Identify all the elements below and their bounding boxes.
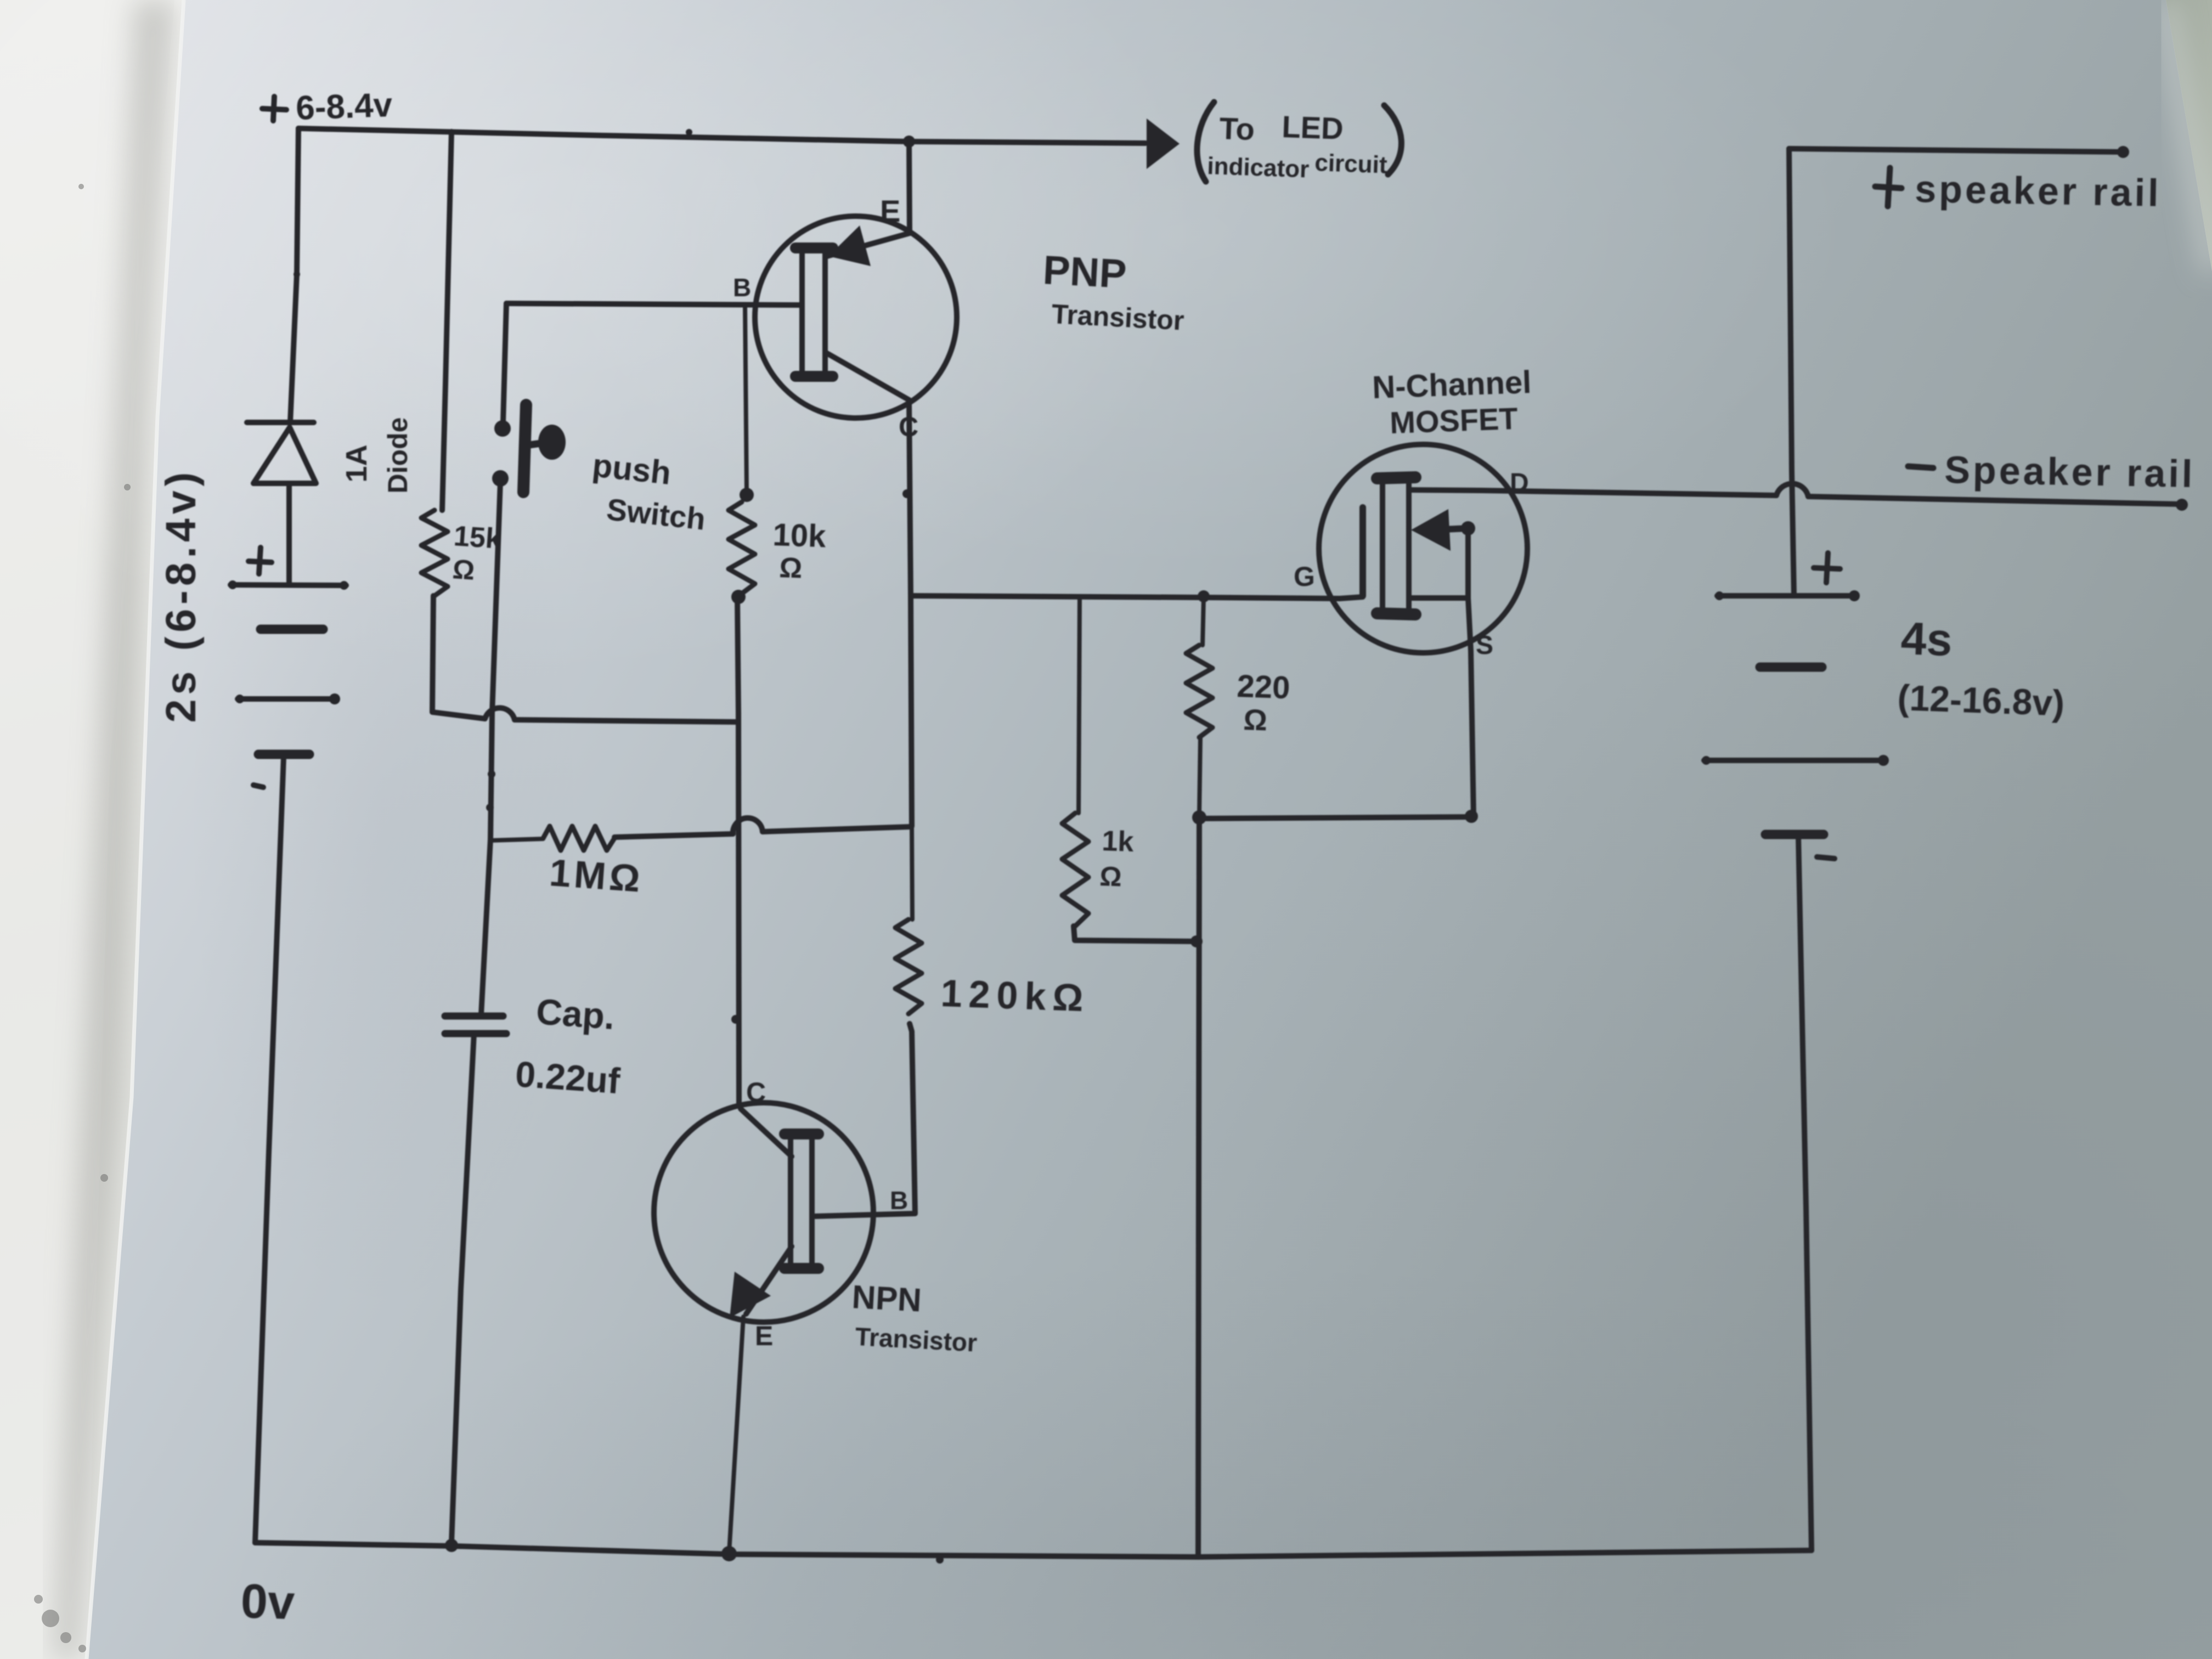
wire NPN emitter to rail [729, 1317, 743, 1553]
svg-text:speaker rail: speaker rail [1915, 167, 2162, 215]
wire emitter to rail [909, 142, 910, 233]
wire 120k to NPN base [815, 1024, 915, 1216]
wire gate lead [1340, 597, 1363, 599]
label +6-8.4v supply [273, 97, 274, 121]
wire 15k to corner [432, 596, 485, 719]
svg-text:1k: 1k [1102, 825, 1135, 858]
resistor R4 1k [1062, 813, 1088, 926]
svg-text:Ω: Ω [1099, 861, 1122, 892]
ink dot on collector wire 2 [731, 1015, 740, 1024]
wire MOSFET source to 220 node [1199, 817, 1474, 819]
wire plus rail vertical to battery [1789, 149, 1794, 595]
ink dots on switch wire [488, 770, 495, 778]
wire switch down to 1M/cap node [481, 482, 500, 1015]
transistor Q1 emitter arrow (PNP) [828, 225, 871, 266]
wire hop over collector line [733, 818, 763, 834]
wire drain to hop [1481, 490, 1776, 495]
svg-text:10k: 10k [772, 517, 827, 554]
wire B-net to 10k [745, 305, 747, 492]
wire top positive rail [298, 128, 1145, 143]
junction dot cap/rail [445, 1539, 458, 1552]
wire 220 to source node [1199, 737, 1200, 815]
svg-text:Ω: Ω [779, 552, 803, 584]
MOSFET Q3 source inner wire [1409, 595, 1468, 601]
wire plus speaker rail [1789, 149, 2122, 152]
wire 1k to mid node [1074, 926, 1196, 941]
label To LED indicator circuit [1197, 102, 1214, 182]
junction dot 1k/mid [1190, 935, 1203, 947]
battery BT1 short plate 1 [261, 625, 323, 634]
transistor Q2 NPN circle [654, 1103, 873, 1322]
MOSFET Q3 gate bar [1359, 507, 1366, 596]
junction dot emitter/rail [721, 1546, 737, 1561]
resistor R2 1M lead [490, 839, 543, 840]
svg-text:PNP: PNP [1042, 247, 1127, 297]
svg-text:Ω: Ω [452, 554, 476, 586]
label plus speaker rail [1888, 168, 1890, 206]
svg-text:15k: 15k [453, 520, 503, 555]
svg-text:4s: 4s [1900, 612, 1953, 665]
wire mid node to bottom rail [1198, 819, 1199, 1556]
push switch SW1 actuator [523, 405, 526, 492]
svg-text:To: To [1219, 111, 1255, 146]
push switch SW1 bottom contact [492, 470, 509, 487]
svg-text:0v: 0v [240, 1573, 295, 1629]
battery BT2 short plate 1 [1760, 663, 1822, 672]
svg-text:B: B [733, 273, 751, 302]
wire diode branch from rail [290, 128, 298, 422]
svg-text:Cap.: Cap. [535, 991, 616, 1037]
svg-text:C: C [899, 411, 918, 442]
wire gate to 1k [1079, 596, 1080, 813]
wire gate net [911, 596, 1340, 599]
battery BT1 long plate 2 [238, 696, 337, 702]
svg-text:MOSFET: MOSFET [1389, 401, 1518, 440]
svg-text:circuit: circuit [1314, 149, 1388, 179]
MOSFET Q3 channel bar [1383, 475, 1409, 617]
svg-text:1MΩ: 1MΩ [548, 851, 645, 900]
svg-text:Diode: Diode [382, 417, 413, 494]
battery BT2 plate dots 2 [1702, 756, 1711, 765]
MOSFET Q3 drain inner wire [1409, 490, 1481, 490]
resistor R6 120k [895, 919, 922, 1014]
ink dot on diode wire [294, 271, 300, 278]
MOSFET Q3 body diode arrow [1411, 509, 1451, 551]
wire minus speaker rail [1808, 496, 2181, 504]
svg-text:indicator: indicator [1207, 153, 1310, 183]
wire MOSFET source down [1468, 598, 1474, 817]
junction dot gate/220 [1198, 590, 1210, 602]
svg-text:LED: LED [1282, 109, 1344, 146]
wire right battery negative down [1798, 836, 1812, 1550]
wire gate to 220 [1203, 597, 1204, 645]
wire collector down to gate node [909, 400, 911, 596]
push switch SW1 top contact [494, 420, 511, 437]
arrow to LED indicator circuit [1147, 119, 1180, 169]
svg-text:NPN: NPN [851, 1278, 922, 1319]
transistor Q1 PNP circle [755, 216, 957, 418]
battery BT1 minus tick [253, 785, 263, 787]
wire B-net to switch [503, 303, 506, 422]
battery BT2 long plate 1 [1717, 593, 1857, 599]
transistor Q2 base bar [791, 1131, 812, 1271]
transistor Q1 collector diagonal [825, 352, 909, 400]
transistor Q2 emitter arrow (NPN) [730, 1272, 771, 1318]
wire base B-net [506, 303, 800, 305]
battery BT1 long plate 1 [230, 585, 346, 585]
wire hop over switch line [485, 708, 515, 720]
resistor R3 10k [729, 502, 755, 594]
transistor Q1 emitter diagonal [825, 233, 910, 257]
svg-text:0.22uf: 0.22uf [514, 1053, 622, 1101]
wire hop over +speaker vertical [1776, 484, 1808, 496]
wire 10k to NPN collector [737, 598, 739, 1106]
junction dot top rail / PNP emitter [903, 136, 915, 148]
battery BT1 plate dots [228, 580, 237, 589]
end dot minus speaker rail [2176, 499, 2188, 511]
resistor R1 15k [421, 510, 448, 596]
svg-text:120kΩ: 120kΩ [940, 972, 1090, 1019]
ink blob on rail [936, 1556, 944, 1564]
wire 15k corner to 10k line [515, 720, 737, 722]
capacitor C1 0.22uF bottom plate [445, 1030, 506, 1037]
MOSFET Q3 source vertical [1465, 529, 1471, 598]
svg-text:B: B [890, 1186, 908, 1215]
MOSFET Q3 body arrow stub [1431, 528, 1468, 530]
svg-text:G: G [1294, 561, 1315, 592]
wire diode to battery [286, 483, 292, 583]
diode D1 1A cathode bar [247, 420, 314, 425]
svg-text:(12-16.8v): (12-16.8v) [1897, 677, 2066, 724]
wire bottom 0v rail [255, 1543, 1812, 1557]
blob at source corner [1465, 810, 1478, 823]
battery BT1 short plate 2 [258, 750, 309, 759]
svg-text:2s (6-8.4v): 2s (6-8.4v) [157, 468, 205, 723]
resistor R5 220 [1186, 645, 1212, 737]
battery BT1 plate dots 2 [235, 695, 244, 703]
label minus speaker rail [1908, 466, 1933, 468]
end dot plus speaker rail [2117, 146, 2129, 158]
svg-text:N-Channel: N-Channel [1372, 364, 1532, 405]
10k bottom blob [731, 590, 746, 604]
wire cap to bottom rail [452, 1034, 474, 1543]
battery BT2 plate dots [1715, 591, 1724, 600]
svg-text:E: E [880, 194, 900, 228]
svg-text:Speaker rail: Speaker rail [1944, 448, 2196, 495]
wire 1M hop to 120k corner [763, 827, 911, 832]
svg-text:1A: 1A [340, 444, 373, 482]
resistor R2 1M [543, 826, 614, 850]
battery BT2 plus sign [1826, 553, 1828, 583]
capacitor C1 0.22uF top plate [445, 1013, 503, 1020]
blob at arrow stub [1461, 521, 1475, 535]
svg-text:S: S [1476, 631, 1493, 660]
battery BT2 long plate 2 [1704, 758, 1886, 763]
ink dot on top rail [686, 129, 692, 136]
transistor Q1 base bar [802, 245, 825, 379]
wire gate node down to 1M corner [911, 596, 912, 826]
transistor Q2 emitter diagonal [746, 1246, 792, 1314]
battery BT2 short plate 2 [1765, 830, 1824, 839]
diode D1 1A triangle [253, 427, 316, 483]
svg-text:Ω: Ω [1243, 703, 1268, 737]
battery BT2 minus tick [1817, 857, 1835, 859]
battery BT1 plus sign [259, 548, 261, 574]
MOSFET Q3 circle [1319, 444, 1527, 653]
transistor Q2 collector diagonal [741, 1109, 792, 1156]
wire left battery negative down [255, 757, 284, 1543]
svg-text:C: C [746, 1077, 766, 1108]
svg-text:220: 220 [1237, 668, 1291, 706]
wire rail to 15k [442, 132, 452, 510]
ink dot on collector wire [902, 489, 911, 498]
wire 1M to hop [614, 834, 733, 837]
svg-text:E: E [755, 1321, 773, 1351]
junction dot 220/source [1192, 810, 1206, 825]
10k top blob [740, 488, 754, 502]
svg-text:6-8.4v: 6-8.4v [295, 86, 393, 127]
wire 1M corner to 120k [912, 826, 912, 919]
